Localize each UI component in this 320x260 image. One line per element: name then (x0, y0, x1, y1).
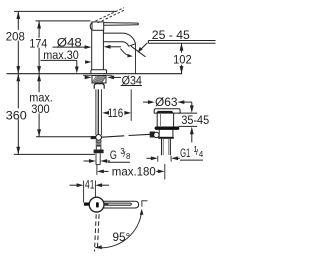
faucet body left edge (91, 30, 93, 70)
spout bottom line (103, 42, 128, 47)
join step (147, 41, 149, 44)
spout outlet vertical reference (135, 44, 137, 74)
top view lever stub (84, 203, 90, 206)
spout tip tick (142, 200, 148, 202)
35-45 dim upper (191, 102, 193, 106)
faucet cap (92, 22, 104, 30)
dimension line 174/max300 vertical (38, 21, 40, 137)
G1 1/4 left arrow (147, 157, 152, 159)
nut hatch (92, 76, 106, 84)
spout top line (103, 33, 135, 44)
lever dashed raised position line 2 (98, 10, 126, 23)
35-45 upper extension line (179, 112, 198, 114)
waste body bottom flange (158, 137, 174, 139)
35-45 dim lower (191, 133, 193, 143)
arrow up 208 (16, 11, 20, 19)
swivel arc 95deg (95, 210, 141, 247)
svg-text:4: 4 (199, 150, 204, 159)
41 dim line right (101, 184, 110, 186)
deck underside right (103, 74, 113, 76)
102 dim line upper segment (181, 43, 183, 53)
waste neck left (156, 113, 158, 127)
faucet base flange (91, 70, 107, 74)
spout tip extension line (141, 200, 143, 206)
pivot ball (96, 135, 102, 141)
41 right extension line (94, 181, 96, 197)
G3/8 underline (108, 161, 130, 163)
lever rod top (104, 22, 139, 25)
rotated spout dashed right (98, 214, 100, 247)
lever rod bottom (104, 24, 139, 27)
Ø63 left arrow (143, 101, 149, 103)
pipe bottom (96, 164, 100, 166)
svg-text:208: 208 (6, 29, 25, 43)
top view spout inner (105, 203, 132, 205)
supply hose line right (100, 89, 102, 135)
small arrow at body left edge (85, 61, 87, 63)
max180 dim line right with arrow (156, 170, 159, 172)
svg-text:95°: 95° (113, 230, 131, 244)
extension line max300 bottom (36, 136, 91, 138)
thread stripes (96, 143, 102, 145)
svg-text:35-45: 35-45 (181, 113, 209, 127)
svg-text:360: 360 (6, 108, 27, 122)
tailpipe right (169, 139, 171, 156)
svg-text:25 - 45: 25 - 45 (152, 28, 190, 42)
svg-text:G: G (110, 148, 117, 162)
deck underside left (83, 74, 92, 76)
svg-text:41: 41 (85, 178, 95, 192)
Ø34 right arrow pointing left (107, 76, 114, 80)
waste neck right (173, 113, 175, 127)
waste plug seal dark band (156, 111, 173, 113)
horseshoe washer (94, 84, 104, 89)
tailpipe left (161, 139, 163, 156)
svg-text:116: 116 (108, 106, 124, 120)
G1 1/4 underline (180, 159, 203, 161)
pop-up rod pivot block (91, 136, 97, 139)
G3/8 nut (94, 150, 104, 154)
rotated spout dashed left (95, 214, 97, 251)
Ø48 left-pointing arrow at body right edge (109, 46, 122, 48)
arrow up 174 (37, 21, 41, 29)
pop-up rod segment 1 (102, 136, 125, 137)
116 right arrow (125, 112, 127, 114)
svg-text:Ø63: Ø63 (155, 95, 178, 109)
leader to aerator (141, 43, 148, 50)
116 right extension line (130, 89, 132, 120)
svg-text:G1: G1 (180, 146, 190, 160)
arrow up max300 at deck (37, 74, 41, 82)
max180 right extension line (164, 164, 166, 180)
max.30 leader vertical (76, 60, 78, 67)
supply hose line left (95, 89, 97, 135)
aerator stream line (131, 46, 146, 57)
faucet cap left curve (90, 22, 92, 30)
threaded section (96, 142, 102, 147)
svg-text:8: 8 (126, 152, 130, 161)
spout outlet face (129, 44, 136, 47)
top view spout outline (104, 201, 139, 208)
faucet body right edge (102, 30, 104, 70)
dimension line 208/360 vertical (17, 11, 19, 154)
Ø34 leader (113, 76, 121, 78)
pipe below nut right (99, 153, 101, 164)
Ø34 left arrow pointing right (85, 76, 87, 78)
G1 1/4 thread tick left (157, 156, 159, 162)
35-45 lower extension line (179, 125, 198, 127)
pipe extension to max180 (96, 165, 98, 175)
mounting nut (92, 76, 106, 84)
supply pipe below pivot right (100, 140, 102, 142)
G1 1/4 thread tick right (170, 156, 172, 162)
arrow down 174 at deck (37, 66, 41, 74)
lever rod end cap (137, 23, 139, 25)
Ø34 underline (121, 85, 142, 87)
arc arrow top (140, 209, 144, 215)
max.30 leader arrow (75, 67, 79, 74)
tailpipe thread right (168, 139, 170, 155)
G1 1/4 right arrow (178, 157, 180, 159)
102 dim line lower segment (181, 65, 183, 74)
arrow up 360 at deck (16, 74, 20, 82)
spout outlet level extension line (148, 42, 215, 44)
top view body circle (89, 197, 104, 212)
waste flange (154, 109, 180, 113)
Ø63 right arrow (184, 101, 192, 103)
max.30 underline (40, 59, 76, 61)
waste side port (154, 132, 159, 137)
pop-up rod segment 2 (129, 134, 151, 135)
41 dim line left (70, 184, 79, 186)
extension line 360 bottom (14, 153, 95, 155)
aerator swivel arc (121, 49, 131, 57)
tailpipe thread left (162, 139, 164, 155)
threaded rod center (97, 89, 99, 135)
extension line top of lever (208) (14, 10, 116, 12)
waste O-ring (155, 127, 180, 130)
pipe below nut left (95, 153, 97, 164)
dim line Ø48 with right-pointing arrow (53, 46, 86, 48)
supply pipe below pivot left (95, 140, 97, 142)
25-45 dim line (148, 40, 215, 42)
max180 dim line left with arrow (103, 170, 109, 172)
arc arrow bottom (95, 245, 102, 249)
svg-text:300: 300 (31, 102, 50, 116)
arrow down 208 at deck (16, 66, 20, 74)
rod clevis at waste (150, 132, 156, 138)
top view cartridge pill (96, 202, 99, 207)
waste body left (158, 130, 160, 137)
extension line cap top (174) (36, 20, 91, 22)
G3/8 thread arrows (84, 160, 90, 162)
plug stem line (160, 114, 162, 126)
arrow down 360 (16, 147, 20, 155)
svg-text:102: 102 (173, 53, 192, 67)
lever dashed raised position line 1 (95, 8, 124, 21)
svg-text:max.180: max.180 (112, 165, 156, 179)
arrow down max300 (37, 129, 41, 137)
deck line (7, 73, 183, 75)
116 left arrow (102, 111, 109, 115)
waste body right (172, 130, 174, 137)
41 left extension line (83, 181, 85, 203)
